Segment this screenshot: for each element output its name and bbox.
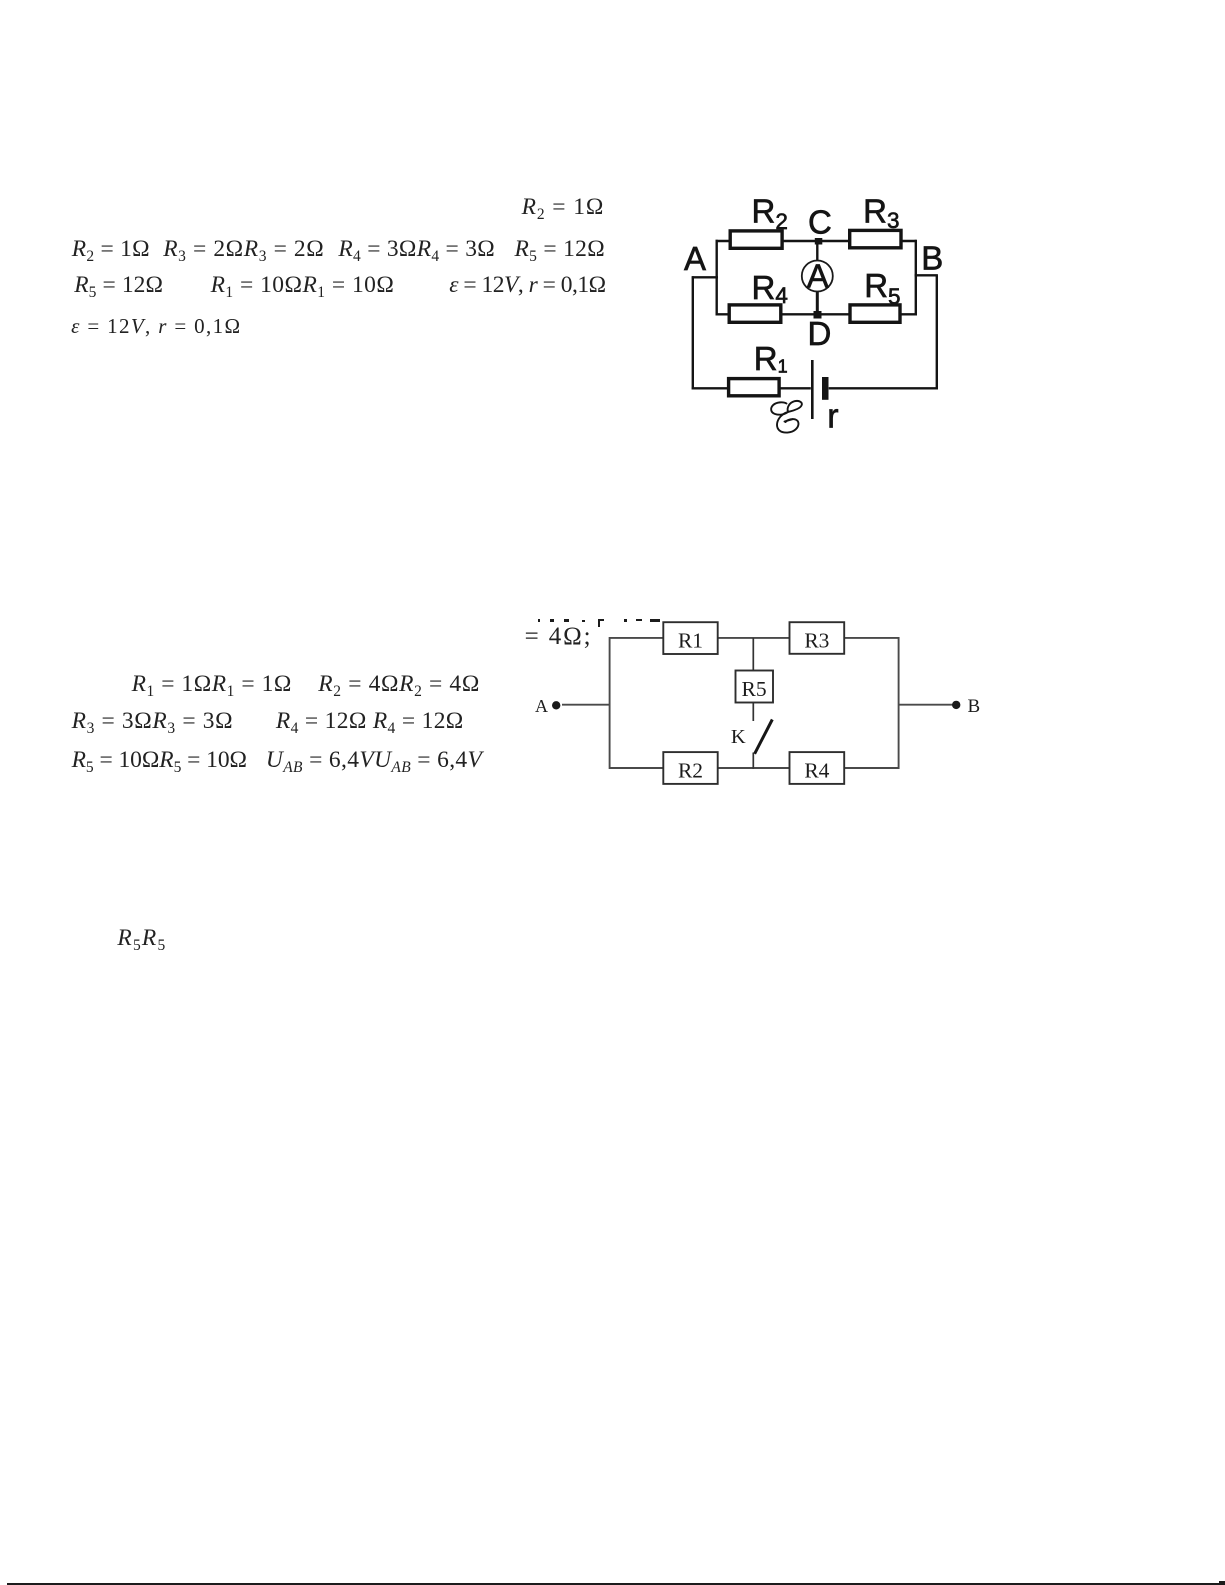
svg-text:K: K bbox=[731, 726, 746, 748]
svg-text:B: B bbox=[921, 239, 943, 276]
svg-text:B: B bbox=[967, 696, 980, 717]
svg-text:C: C bbox=[808, 203, 832, 240]
svg-text:R5: R5 bbox=[742, 677, 767, 701]
svg-text:D: D bbox=[808, 315, 832, 352]
svg-text:R3: R3 bbox=[863, 192, 899, 233]
svg-text:R3: R3 bbox=[804, 628, 829, 652]
svg-text:R1: R1 bbox=[754, 340, 788, 377]
svg-text:R5: R5 bbox=[864, 267, 900, 309]
svg-text:R1: R1 bbox=[678, 628, 703, 652]
svg-text:A: A bbox=[807, 257, 829, 294]
svg-text:R4: R4 bbox=[752, 269, 788, 308]
svg-text:A: A bbox=[535, 696, 548, 716]
svg-text:A: A bbox=[684, 240, 706, 277]
svg-text:r: r bbox=[827, 397, 838, 435]
svg-text:R4: R4 bbox=[804, 758, 829, 782]
svg-text:R2: R2 bbox=[678, 758, 703, 782]
svg-text:R2: R2 bbox=[752, 192, 788, 234]
